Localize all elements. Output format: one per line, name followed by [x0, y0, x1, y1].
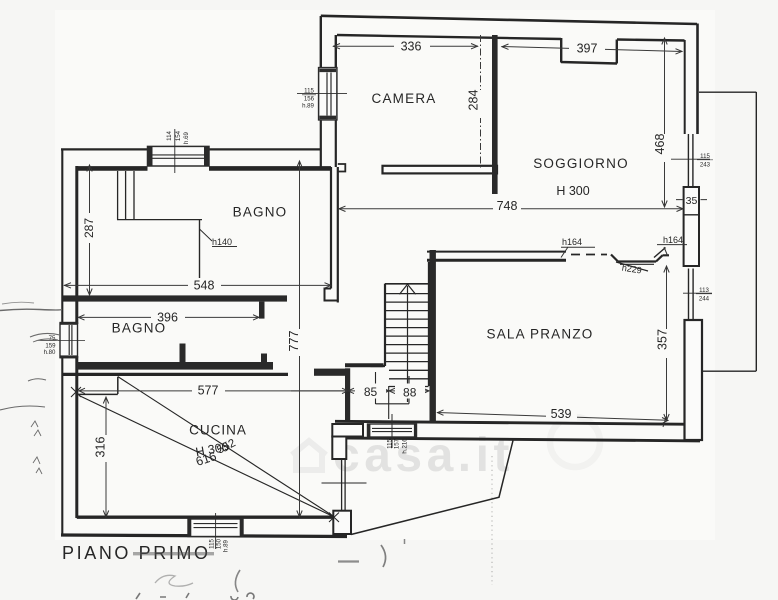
svg-text:h.69: h.69 — [183, 131, 190, 143]
svg-text:336: 336 — [401, 40, 422, 54]
svg-text:H 300: H 300 — [556, 184, 589, 198]
svg-text:115: 115 — [304, 88, 314, 95]
svg-text:287: 287 — [82, 218, 96, 238]
svg-text:88: 88 — [403, 386, 417, 400]
svg-text:35: 35 — [686, 195, 698, 207]
svg-text:156: 156 — [304, 96, 315, 103]
svg-text:SOGGIORNO: SOGGIORNO — [533, 156, 629, 171]
svg-text:114: 114 — [166, 131, 173, 141]
svg-text:115: 115 — [209, 539, 216, 549]
svg-text:SALA PRANZO: SALA PRANZO — [487, 327, 594, 342]
svg-text:777: 777 — [287, 331, 301, 352]
svg-text:548: 548 — [194, 279, 215, 293]
svg-text:397: 397 — [577, 42, 598, 56]
svg-text:748: 748 — [497, 199, 518, 213]
svg-text:h.80: h.80 — [44, 349, 56, 356]
svg-text:157: 157 — [394, 438, 401, 449]
svg-text:115: 115 — [387, 439, 394, 449]
svg-text:CUCINA: CUCINA — [189, 423, 247, 438]
svg-text:468: 468 — [653, 134, 667, 155]
svg-text:115: 115 — [700, 153, 710, 160]
svg-text:577: 577 — [198, 384, 219, 398]
svg-text:h164: h164 — [663, 235, 683, 245]
svg-text:CAMERA: CAMERA — [372, 91, 437, 106]
svg-text:316: 316 — [94, 437, 108, 458]
svg-text:150: 150 — [216, 538, 223, 549]
svg-text:357: 357 — [656, 329, 670, 350]
svg-text:h.216: h.216 — [402, 438, 409, 454]
svg-text:396: 396 — [157, 311, 178, 325]
svg-text:154: 154 — [175, 130, 182, 141]
svg-text:539: 539 — [551, 407, 572, 421]
svg-text:h.89: h.89 — [302, 103, 314, 110]
svg-text:244: 244 — [699, 296, 710, 303]
svg-text:BAGNO: BAGNO — [233, 205, 288, 220]
svg-text:284: 284 — [467, 90, 481, 111]
svg-text:h140: h140 — [212, 237, 232, 247]
svg-text:243: 243 — [700, 162, 711, 169]
svg-text:h.89: h.89 — [223, 539, 230, 551]
svg-text:h164: h164 — [562, 237, 582, 247]
svg-text:85: 85 — [364, 385, 378, 399]
svg-text:113: 113 — [699, 287, 709, 294]
